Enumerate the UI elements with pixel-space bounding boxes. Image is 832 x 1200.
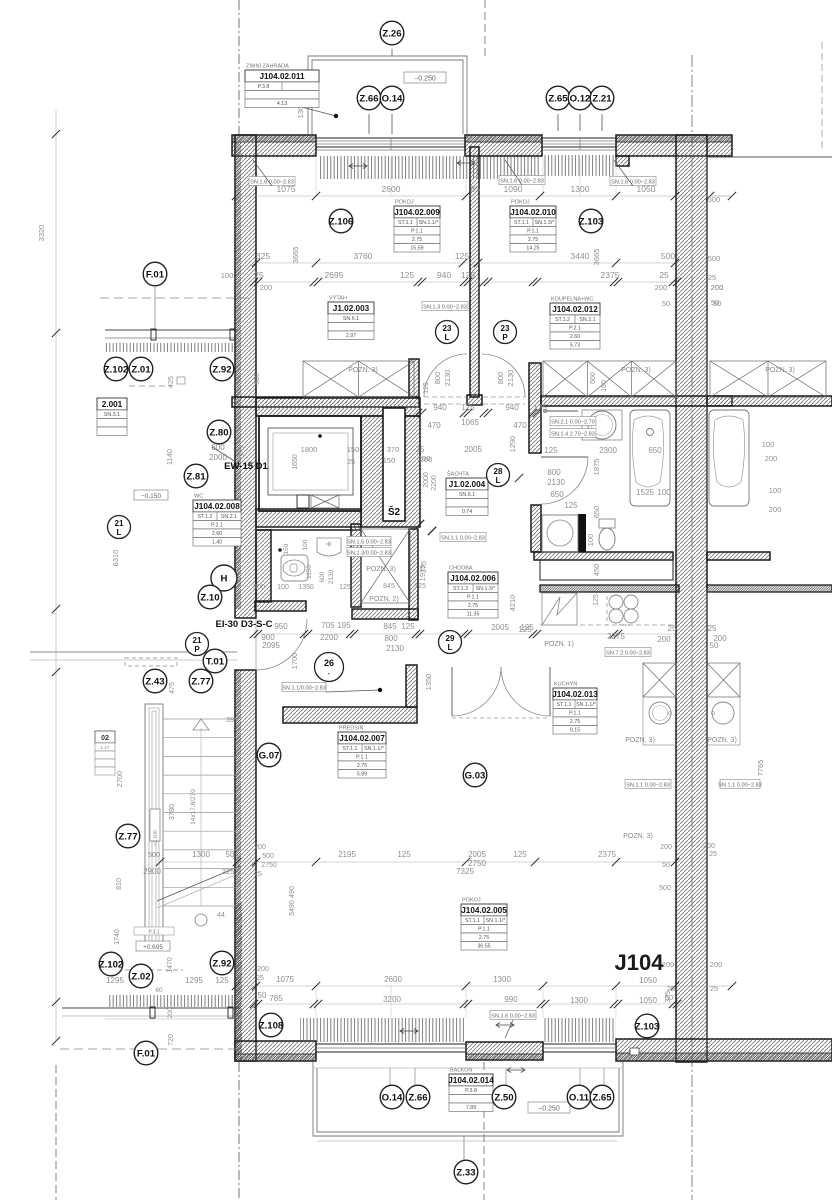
reference bubble Z.01 <box>129 357 153 381</box>
svg-text:SN.1.5 0.00−2.83: SN.1.5 0.00−2.83 <box>347 539 391 545</box>
svg-text:KOUPELNA+WC: KOUPELNA+WC <box>551 297 593 303</box>
svg-text:Z.21: Z.21 <box>592 93 612 104</box>
svg-text:Z.81: Z.81 <box>186 471 206 482</box>
svg-text:2.75: 2.75 <box>357 763 367 769</box>
left margin partial table 02 <box>95 731 115 743</box>
svg-text:ST.1.1: ST.1.1 <box>398 220 413 226</box>
note box SN.1.3/0.00−2.83 <box>347 548 391 557</box>
svg-text:J104.02.005: J104.02.005 <box>461 906 507 915</box>
svg-text:125: 125 <box>461 270 475 280</box>
svg-text:SN.1.6 0.00−2.83: SN.1.6 0.00−2.83 <box>491 1013 535 1019</box>
balcony outer drip line <box>317 1140 617 1142</box>
landing corridor wall lines top-left <box>105 329 237 331</box>
svg-text:7765: 7765 <box>756 760 765 777</box>
svg-text:14.25: 14.25 <box>526 246 539 252</box>
svg-text:2700: 2700 <box>115 771 124 788</box>
svg-text:ŠACHTA: ŠACHTA <box>447 471 469 478</box>
svg-text:SN.2.1: SN.2.1 <box>221 514 237 520</box>
svg-text:POKOJ: POKOJ <box>395 200 414 206</box>
svg-text:Z.77: Z.77 <box>191 676 210 687</box>
reference bubble Z.106 <box>329 209 354 233</box>
wardrobe (POZN) box <box>710 361 826 397</box>
svg-text:125: 125 <box>564 501 578 510</box>
note box SN.1.6 0.00−2.83 <box>499 176 545 185</box>
door bubble 23/P <box>494 321 517 344</box>
svg-text:J104.02.006: J104.02.006 <box>450 574 496 583</box>
axis dash-dot line right (party wall centreline) <box>691 55 693 1200</box>
svg-text:800: 800 <box>496 372 505 385</box>
toilet (bath) <box>599 519 615 528</box>
interior wall B <box>541 396 732 406</box>
svg-text:T.01: T.01 <box>206 656 225 667</box>
svg-text:J104: J104 <box>615 950 665 975</box>
reference bubble Z.65 <box>590 1085 614 1109</box>
closet stub <box>409 359 419 397</box>
room table J104.02.009 <box>394 200 440 253</box>
svg-text:1300: 1300 <box>570 996 588 1005</box>
svg-text:28: 28 <box>494 467 503 476</box>
svg-text:SN.1.1/*: SN.1.1/* <box>576 702 596 708</box>
svg-text:845: 845 <box>383 622 397 631</box>
svg-text:Z.108: Z.108 <box>259 1020 284 1031</box>
svg-text:25: 25 <box>708 624 717 633</box>
hall niche outline <box>540 560 673 580</box>
door bubble 23/L <box>436 321 459 344</box>
svg-text:25: 25 <box>709 851 717 858</box>
wardrobe (POZN) box <box>361 529 410 603</box>
reference bubble Z.92 <box>210 357 234 381</box>
svg-text:150: 150 <box>347 445 360 454</box>
washbasin WC room <box>317 538 341 556</box>
svg-text:SN.1.3/0.00−2.83: SN.1.3/0.00−2.83 <box>347 550 391 556</box>
svg-text:Z.80: Z.80 <box>209 427 228 438</box>
svg-text:O.14: O.14 <box>382 93 403 104</box>
room table 2.001 <box>97 398 127 436</box>
svg-text:POZN. 3): POZN. 3) <box>623 833 653 840</box>
svg-text:1050: 1050 <box>639 976 657 985</box>
svg-text:29: 29 <box>446 634 455 643</box>
svg-text:3665: 3665 <box>592 249 601 266</box>
room table J104.02.013 <box>552 681 598 735</box>
wardrobe (POZN) box <box>303 361 414 397</box>
svg-text:100: 100 <box>762 440 775 449</box>
wc right wall <box>351 524 361 607</box>
hob 4 plates <box>609 595 623 609</box>
svg-text:ZIMNÍ ZAHRADA: ZIMNÍ ZAHRADA <box>246 63 289 70</box>
column mark circle 44 <box>195 914 207 926</box>
svg-text:O.14: O.14 <box>382 1092 403 1103</box>
svg-text:1.1/*: 1.1/* <box>100 745 110 750</box>
svg-text:7325: 7325 <box>456 867 474 876</box>
svg-text:36.55: 36.55 <box>477 944 490 950</box>
note box SN.1.6 0.00−2.83 <box>490 1011 536 1020</box>
svg-text:9.15: 9.15 <box>570 728 580 734</box>
svg-text:2375: 2375 <box>607 632 625 641</box>
reference bubble Z.02 <box>129 964 153 988</box>
svg-text:2.75: 2.75 <box>479 935 489 941</box>
svg-text:6310: 6310 <box>111 550 120 567</box>
svg-text:600: 600 <box>590 372 597 384</box>
svg-text:2300: 2300 <box>599 446 617 455</box>
left wall upper <box>235 135 256 618</box>
svg-text:Z.50: Z.50 <box>494 1092 513 1103</box>
svg-text:3200: 3200 <box>383 995 401 1004</box>
svg-text:125: 125 <box>593 594 600 606</box>
svg-text:1875: 1875 <box>592 459 601 476</box>
svg-text:1295: 1295 <box>185 976 203 985</box>
room table J104.02.011 <box>245 63 319 108</box>
door bubble 21/L <box>108 516 131 539</box>
svg-text:2695: 2695 <box>325 270 344 280</box>
svg-text:1.40: 1.40 <box>212 540 222 546</box>
axis dashed bottom center <box>483 1062 485 1200</box>
svg-text:G.07: G.07 <box>259 750 280 761</box>
svg-text:L: L <box>445 333 450 342</box>
reference bubble Z.81 <box>184 464 208 488</box>
svg-text:POKOJ: POKOJ <box>462 898 481 904</box>
svg-text:1350: 1350 <box>298 584 314 591</box>
svg-text:25: 25 <box>254 871 262 878</box>
reference bubble Z.92 <box>210 951 234 975</box>
svg-text:Z.66: Z.66 <box>359 93 378 104</box>
svg-text:1090: 1090 <box>504 184 523 194</box>
arrow symbol <box>400 1029 418 1034</box>
hedge tick row top-left <box>105 343 237 352</box>
svg-text:0.74: 0.74 <box>462 509 472 515</box>
svg-text:P.1.1: P.1.1 <box>478 927 490 933</box>
svg-text:2130: 2130 <box>506 370 515 387</box>
svg-text:15.59: 15.59 <box>410 246 423 252</box>
threshold ticks bottom band <box>300 1018 466 1042</box>
reference bubble Z.33 <box>454 1160 478 1184</box>
living room dims y857 <box>160 861 675 863</box>
svg-text:2.97: 2.97 <box>346 333 356 339</box>
bottom pier <box>466 1042 543 1060</box>
svg-text:50: 50 <box>711 298 719 307</box>
svg-text:1650: 1650 <box>292 454 299 470</box>
door threshold dashes <box>424 396 466 398</box>
svg-text:300: 300 <box>253 584 265 591</box>
svg-text:SN.1.6 0.00−2.83: SN.1.6 0.00−2.83 <box>250 179 294 185</box>
svg-text:100: 100 <box>586 534 595 547</box>
shaft S2 duct <box>383 408 405 521</box>
svg-text:600: 600 <box>319 571 326 582</box>
door jamb bottom-left 2 <box>228 1007 233 1018</box>
svg-text:810: 810 <box>116 878 123 890</box>
reference bubble F.01 <box>134 1041 158 1065</box>
note box SN.2.1 0.00−2.70 <box>550 417 596 426</box>
svg-text:125: 125 <box>455 251 469 261</box>
svg-text:P.1.1: P.1.1 <box>569 711 581 717</box>
lift shaft bold outline <box>259 416 361 511</box>
leader arrows from note boxes <box>253 160 272 186</box>
note box SN.1.1/0.00−2.83 <box>282 683 326 692</box>
note box SN.1.6 0.00−2.83 <box>249 177 295 186</box>
svg-text:25: 25 <box>667 984 675 993</box>
svg-text:SN.1.1/*: SN.1.1/* <box>364 746 384 752</box>
svg-text:1470: 1470 <box>167 957 174 973</box>
svg-text:25: 25 <box>708 273 716 282</box>
svg-text:1140: 1140 <box>165 449 174 465</box>
svg-text:J104.02.012: J104.02.012 <box>552 305 598 314</box>
svg-text:SN.1.1/0.00−2.83: SN.1.1/0.00−2.83 <box>282 685 326 691</box>
svg-text:CHODBA: CHODBA <box>449 566 473 572</box>
svg-text:Š2: Š2 <box>388 505 401 518</box>
reference bubble Z.10 <box>198 585 222 609</box>
svg-text:1300: 1300 <box>571 184 590 194</box>
dashed facade line bottom F.01 <box>60 1048 240 1050</box>
svg-text:3665: 3665 <box>291 247 300 264</box>
bottom wall left <box>235 1041 316 1061</box>
dim extension lines bottom windows <box>315 986 317 1018</box>
svg-text:125: 125 <box>544 446 558 455</box>
svg-text:650: 650 <box>592 506 601 519</box>
svg-text:POZN. 3): POZN. 3) <box>621 367 651 374</box>
bottom dim rows <box>236 985 732 987</box>
reference bubble Z.26 <box>380 21 404 45</box>
svg-text:P: P <box>194 645 200 654</box>
axis dashed bottom left <box>55 1065 57 1200</box>
svg-text:370: 370 <box>387 445 400 454</box>
svg-text:25: 25 <box>254 270 264 280</box>
svg-text:25: 25 <box>659 270 669 280</box>
reference bubble Z.21 <box>590 86 614 110</box>
svg-text:800: 800 <box>433 372 442 385</box>
svg-text:2.60: 2.60 <box>212 531 222 537</box>
svg-text:ST.1.1: ST.1.1 <box>465 918 480 924</box>
svg-text:500: 500 <box>708 254 721 263</box>
svg-text:2095: 2095 <box>262 641 280 650</box>
WC room top wall <box>256 529 361 531</box>
staircase break line <box>157 866 240 901</box>
right party wall <box>676 135 707 1062</box>
bath bottom wall <box>534 552 673 560</box>
window bottom-left <box>316 1043 466 1045</box>
svg-text:F.01: F.01 <box>137 1048 156 1059</box>
note box SN.1.5 0.00−2.83 <box>347 537 391 546</box>
svg-text:800: 800 <box>384 634 398 643</box>
svg-text:3780: 3780 <box>167 804 176 821</box>
fridge zigzag symbol <box>542 593 577 625</box>
neighbour counter <box>739 663 741 745</box>
svg-text:2750: 2750 <box>261 862 277 869</box>
svg-text:ST.1.1: ST.1.1 <box>556 702 571 708</box>
note box SN.1.4 2.70−2.83 <box>550 429 596 438</box>
svg-text:SN.3.1: SN.3.1 <box>104 412 120 418</box>
entry wall right <box>352 609 418 619</box>
lift bottom band <box>256 509 361 527</box>
svg-text:2195: 2195 <box>338 850 356 859</box>
reference bubble Z.66 <box>357 86 381 110</box>
svg-text:Z.103: Z.103 <box>635 1021 660 1032</box>
svg-text:WC: WC <box>194 494 203 500</box>
svg-text:POZN. 3): POZN. 3) <box>625 737 655 744</box>
svg-text:125: 125 <box>518 625 532 634</box>
svg-text:EW-15 D1: EW-15 D1 <box>224 461 268 472</box>
rail label box 2.100 <box>150 809 160 841</box>
door bubble 28/L <box>487 464 510 487</box>
svg-text:14x17,8/270: 14x17,8/270 <box>190 789 197 825</box>
svg-text:H: H <box>221 573 228 584</box>
svg-text:POZN. 3): POZN. 3) <box>348 367 378 374</box>
level box -0.250 <box>404 72 446 83</box>
svg-text:Z.01: Z.01 <box>131 364 151 375</box>
svg-text:720: 720 <box>168 1034 175 1046</box>
svg-text:L: L <box>117 528 122 537</box>
svg-text:1525: 1525 <box>636 488 654 497</box>
wc partition <box>256 530 271 602</box>
svg-text:P.1.1: P.1.1 <box>527 229 539 235</box>
svg-text:705: 705 <box>321 621 335 630</box>
svg-text:P.1.1: P.1.1 <box>411 229 423 235</box>
room table J104.02.006 <box>448 566 498 619</box>
svg-text:50: 50 <box>226 850 235 859</box>
svg-text:+0.695: +0.695 <box>143 944 163 951</box>
wardrobe (POZN) box <box>707 663 740 697</box>
door bubble 26 <box>315 653 344 682</box>
svg-text:Z.65: Z.65 <box>592 1092 612 1103</box>
svg-text:2375: 2375 <box>601 270 620 280</box>
svg-text:150: 150 <box>383 456 396 465</box>
svg-text:50: 50 <box>258 991 267 1000</box>
reference bubble Z.80 <box>207 420 231 444</box>
lift right column <box>361 416 420 527</box>
svg-text:490: 490 <box>289 886 296 898</box>
svg-text:1700: 1700 <box>290 653 299 670</box>
dashed box landing <box>125 658 177 666</box>
bottom wall right <box>616 1039 832 1061</box>
svg-text:−0.250: −0.250 <box>538 1106 560 1113</box>
Z.33 leader <box>463 1136 465 1161</box>
reference bubble Z.102 <box>104 357 129 381</box>
svg-text:800: 800 <box>547 468 561 477</box>
svg-text:J1.02.003: J1.02.003 <box>333 304 370 313</box>
svg-text:25: 25 <box>416 445 425 454</box>
svg-text:150: 150 <box>283 543 290 554</box>
washer nook stub wall <box>578 514 586 552</box>
svg-text:BALKON: BALKON <box>450 1068 472 1074</box>
svg-text:125: 125 <box>423 382 430 394</box>
svg-text:POKOJ: POKOJ <box>511 200 530 206</box>
room table J104.02.010 <box>510 200 556 253</box>
level box -0.150 <box>134 490 168 500</box>
svg-text:2.001: 2.001 <box>102 400 123 409</box>
svg-text:1800: 1800 <box>301 445 318 454</box>
dim extension lines top windows <box>315 158 317 196</box>
svg-text:-: - <box>328 669 331 678</box>
svg-text:SN.1.1 0.00−2.83: SN.1.1 0.00−2.83 <box>718 782 762 788</box>
lift door sill <box>297 495 309 508</box>
note box SN.1.6 0.00−2.83 <box>610 177 656 186</box>
svg-text:P.3.1: P.3.1 <box>148 930 159 936</box>
door room right (23 P) <box>482 354 525 397</box>
svg-text:Z.26: Z.26 <box>382 28 401 39</box>
svg-text:2130: 2130 <box>328 569 335 584</box>
balcony railing bottom <box>313 1062 623 1136</box>
svg-text:150: 150 <box>601 380 608 392</box>
left wall lower <box>235 670 256 1061</box>
svg-text:200: 200 <box>260 283 273 292</box>
svg-text:2200: 2200 <box>320 633 338 642</box>
hedge tick row bottom-left <box>107 995 236 1007</box>
svg-text:475: 475 <box>169 682 176 694</box>
room table J1.02.004 <box>446 471 488 516</box>
svg-text:26: 26 <box>324 658 334 668</box>
svg-text:2.60: 2.60 <box>570 334 580 340</box>
svg-text:SN.1.1/*: SN.1.1/* <box>486 918 506 924</box>
F.01 leader <box>154 287 156 329</box>
svg-text:60: 60 <box>155 987 163 994</box>
room table J1.02.003 <box>328 295 374 340</box>
svg-text:2130: 2130 <box>547 478 565 487</box>
svg-text:Z.66: Z.66 <box>408 1092 427 1103</box>
svg-text:1350: 1350 <box>424 674 433 691</box>
double door to living room right leaf <box>501 667 550 716</box>
svg-text:J104.02.013: J104.02.013 <box>552 690 598 699</box>
svg-text:F.01: F.01 <box>146 269 165 280</box>
svg-text:7.89: 7.89 <box>466 1105 476 1111</box>
svg-text:4.13: 4.13 <box>277 101 287 107</box>
svg-text:2130: 2130 <box>386 644 404 653</box>
neighbour wall below kitchen <box>706 589 708 1039</box>
svg-text:1050: 1050 <box>639 996 657 1005</box>
wardrobe (POZN) box <box>543 361 676 397</box>
svg-text:2375: 2375 <box>598 850 616 859</box>
svg-text:23: 23 <box>501 324 510 333</box>
svg-text:P: P <box>502 333 508 342</box>
svg-text:SN.1.1 0.00−2.83: SN.1.1 0.00−2.83 <box>441 535 485 541</box>
double door dashed chord <box>452 717 550 719</box>
reference bubble Z.65 <box>546 86 570 110</box>
svg-text:50: 50 <box>710 641 719 650</box>
svg-text:325: 325 <box>256 251 270 261</box>
level box +0.695 <box>136 941 170 951</box>
vanity basin <box>582 410 622 440</box>
svg-text:POZN. 3): POZN. 3) <box>366 566 396 573</box>
svg-text:470: 470 <box>513 421 527 430</box>
svg-text:SN.1.3 0.00−2.83: SN.1.3 0.00−2.83 <box>423 304 467 310</box>
door jamb top-left 2 <box>230 329 235 340</box>
room table J104.02.014 <box>448 1068 494 1112</box>
svg-text:1075: 1075 <box>276 975 294 984</box>
svg-text:L: L <box>496 476 501 485</box>
svg-text:Z.77: Z.77 <box>118 831 137 842</box>
towel rail <box>544 410 578 412</box>
door jamb bottom-left 1 <box>150 1007 155 1018</box>
svg-text:125: 125 <box>339 584 351 591</box>
wall top-right segment <box>616 135 732 156</box>
svg-text:1065: 1065 <box>461 418 479 427</box>
svg-text:200: 200 <box>660 844 672 851</box>
reference bubble Z.77 <box>116 824 140 848</box>
svg-text:Z.103: Z.103 <box>579 216 604 227</box>
arrow symbol <box>349 164 367 169</box>
closet right wall <box>409 529 418 620</box>
room table J104.02.007 <box>338 724 386 779</box>
svg-text:1290: 1290 <box>508 436 517 453</box>
svg-text:2200: 2200 <box>431 475 438 491</box>
svg-text:25: 25 <box>668 624 677 633</box>
svg-text:Z.102: Z.102 <box>99 959 124 970</box>
hall dims y629 <box>256 633 675 635</box>
dimension row y190 <box>236 195 732 197</box>
svg-text:500: 500 <box>659 885 671 892</box>
svg-text:650: 650 <box>648 446 662 455</box>
svg-text:Z.92: Z.92 <box>212 958 231 969</box>
svg-text:11.35: 11.35 <box>467 612 480 618</box>
reference bubble O.11 <box>567 1085 591 1109</box>
svg-text:3760: 3760 <box>354 251 373 261</box>
